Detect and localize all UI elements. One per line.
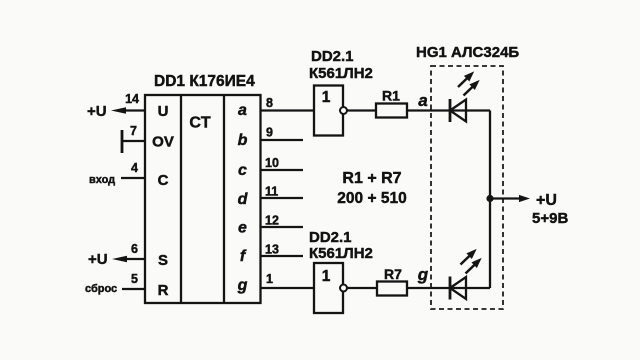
LED segment g cathode bar	[449, 277, 452, 300]
svg-text:1: 1	[266, 272, 273, 286]
wire R1 to LED a	[407, 109, 490, 111]
svg-text:HG1 АЛС324Б: HG1 АЛС324Б	[416, 44, 519, 61]
svg-text:a: a	[238, 102, 247, 119]
wire pin 14	[123, 109, 145, 111]
resistor R1	[376, 104, 407, 118]
display HG1 dashed outline	[431, 66, 503, 309]
wire pin 10 segment c	[260, 169, 303, 171]
wire pin 7	[122, 140, 145, 142]
svg-text:сброс: сброс	[85, 283, 117, 295]
svg-text:6: 6	[131, 242, 138, 256]
svg-text:+U: +U	[536, 192, 557, 209]
wire pin 5	[122, 288, 145, 290]
svg-text:DD2.1: DD2.1	[309, 229, 352, 246]
wire inverter top output to R1	[347, 109, 376, 111]
svg-text:g: g	[417, 265, 429, 284]
svg-text:10: 10	[265, 156, 279, 170]
svg-text:e: e	[238, 220, 247, 237]
DD1 internal labels	[152, 103, 174, 299]
wire pin 8 segment a	[260, 109, 314, 111]
wire pin 9 segment b	[260, 139, 303, 141]
+U supply arrow pin 14	[111, 107, 126, 114]
LED segment g light arrows	[458, 246, 480, 267]
resistor R7	[377, 282, 407, 296]
svg-text:R1: R1	[382, 88, 400, 104]
svg-text:5: 5	[131, 272, 138, 286]
svg-text:U: U	[158, 103, 169, 120]
common anode bus wire	[489, 111, 491, 289]
svg-text:OV: OV	[152, 134, 174, 151]
svg-text:d: d	[238, 191, 249, 208]
svg-text:вход: вход	[89, 174, 115, 186]
svg-text:g: g	[237, 277, 248, 294]
DD1 segment output letters a-g	[237, 102, 249, 294]
wire pin 11 segment d	[260, 197, 303, 199]
svg-text:8: 8	[266, 96, 273, 110]
inverter bottom inversion bubble	[340, 285, 347, 292]
wire R7 to LED g	[407, 287, 490, 289]
common terminal bar pin 7	[121, 130, 124, 153]
svg-text:11: 11	[265, 185, 278, 199]
svg-text:+U: +U	[88, 251, 108, 268]
svg-text:R: R	[158, 282, 169, 299]
svg-text:К561ЛН2: К561ЛН2	[309, 245, 373, 262]
svg-text:R1 + R7: R1 + R7	[342, 170, 401, 187]
LED segment a cathode bar	[449, 99, 452, 122]
wire inverter bottom output to R7	[347, 287, 377, 289]
LED segment a triangle	[450, 100, 466, 122]
svg-text:1: 1	[322, 89, 331, 106]
+U supply arrow pin 6	[112, 256, 127, 263]
svg-text:DD1 К176ИЕ4: DD1 К176ИЕ4	[154, 73, 255, 90]
svg-text:C: C	[158, 172, 169, 189]
wire pin 13 segment f	[260, 255, 303, 257]
svg-text:1: 1	[322, 268, 331, 285]
svg-text:9: 9	[266, 126, 273, 140]
inverter top inversion bubble	[340, 107, 347, 114]
svg-text:DD2.1: DD2.1	[311, 48, 354, 65]
counter DD1 K176IE4 body	[145, 95, 261, 303]
svg-text:14: 14	[125, 92, 139, 106]
inverter DD2.1 bottom body	[314, 263, 343, 313]
svg-text:a: a	[418, 91, 427, 110]
wire pin 1 segment g	[260, 287, 314, 289]
svg-text:200 + 510: 200 + 510	[337, 190, 406, 207]
LED segment g triangle	[450, 277, 466, 299]
svg-text:b: b	[238, 132, 248, 149]
svg-text:CT: CT	[189, 115, 211, 132]
svg-text:4: 4	[131, 161, 138, 175]
+U output arrow	[490, 197, 521, 199]
wire pin 6	[124, 258, 145, 260]
svg-text:R7: R7	[384, 266, 402, 282]
junction node dot	[486, 195, 493, 202]
wire pin 12 segment e	[260, 226, 303, 228]
svg-text:7: 7	[130, 124, 137, 138]
svg-text:+U: +U	[87, 103, 107, 120]
svg-text:12: 12	[265, 214, 279, 228]
svg-text:13: 13	[265, 243, 279, 257]
svg-text:К561ЛН2: К561ЛН2	[309, 65, 373, 82]
inverter DD2.1 top body	[314, 86, 343, 136]
LED segment a light arrows	[455, 69, 477, 90]
wire pin 4	[121, 177, 145, 179]
svg-text:5+9В: 5+9В	[532, 210, 568, 227]
svg-text:c: c	[238, 162, 247, 179]
svg-text:S: S	[158, 252, 168, 269]
